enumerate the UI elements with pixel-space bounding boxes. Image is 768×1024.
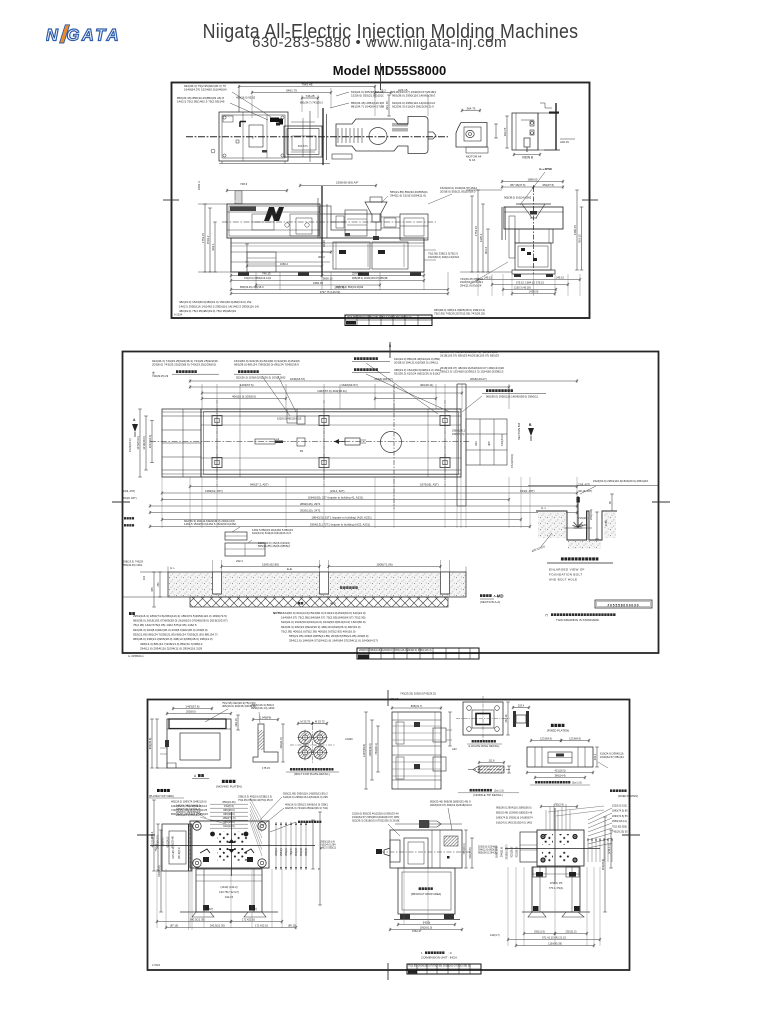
panel 3 border (148, 700, 630, 971)
plan: big circle (369, 128, 387, 145)
svg-text:805(31.7): 805(31.7) (411, 704, 423, 708)
svg-text:775.4, PS(1): 775.4, PS(1) (549, 886, 564, 890)
svg-text:75(2.95) 2618(103.07)75(2.95): 75(2.95) 2618(103.07)75(2.95) 2618(103.0… (408, 965, 471, 968)
svg-text:610(24.0): 610(24.0) (223, 824, 235, 828)
elevation centerline (222, 221, 436, 223)
moving platen extension lines (156, 869, 158, 928)
svg-text:1: 1 (421, 951, 423, 955)
dims above plan (239, 86, 375, 88)
elevation outline (227, 204, 320, 238)
A arrow left (132, 424, 138, 432)
anchor bolts (216, 400, 218, 486)
svg-text:175.15: 175.15 (262, 766, 270, 770)
end view base (512, 270, 555, 274)
dims above plan (190, 380, 577, 382)
svg-text:1793.6, PS: 1793.6, PS (550, 881, 563, 885)
svg-text:482(19.0) 1893(74.5)482(19.0): 482(19.0) 1893(74.5)482(19.0) (171, 800, 207, 804)
elevation base (231, 238, 424, 272)
injection barrel elevation (331, 214, 381, 230)
bottom table (407, 964, 481, 974)
svg-text:1463(57.6): 1463(57.6) (186, 704, 200, 708)
svg-text:203(8.0): 203(8.0) (186, 710, 196, 714)
base doors (333, 242, 370, 269)
svg-text:922(36.3): 922(36.3) (516, 846, 519, 857)
fixed platen top view (527, 747, 593, 767)
Niigata logo (46, 24, 126, 46)
plan: dark blob (270, 118, 279, 123)
plan: nozzle (428, 131, 433, 133)
projection lines down (161, 477, 163, 528)
svg-text:(89.15): (89.15) (288, 924, 296, 928)
right dim stack (275, 822, 277, 870)
extra plan internals (216, 409, 218, 477)
svg-text:482(19.0): 482(19.0) (152, 836, 155, 847)
model line (0, 63, 768, 78)
title table (345, 315, 432, 326)
cabinet (398, 868, 455, 914)
middle view extras (403, 868, 405, 924)
view B (512, 113, 538, 150)
svg-text:850(33.46) 1524(60.0)850(33.46: 850(33.46) 1524(60.0)850(33.46 (496, 812, 533, 815)
circle (381, 432, 402, 453)
small box right of clamp (320, 206, 331, 214)
platform step (247, 252, 276, 272)
svg-text:1462.5 555(21: 1462.5 555(21 (320, 847, 337, 850)
svg-text:366(14.4): 366(14.4) (554, 773, 565, 777)
middle top view banding (392, 725, 441, 727)
svg-text:610(24.0) 1462.5610(24.0) 1462: 610(24.0) 1462.5610(24.0) 1462 (496, 822, 533, 825)
svg-text:671.41.15 642.21.15: 671.41.15 642.21.15 (542, 935, 566, 939)
svg-text:421(16.5): 421(16.5) (554, 768, 565, 772)
fixed platen view (537, 830, 584, 866)
svg-text:2618(103.07): 2618(103.07) (506, 844, 509, 859)
svg-text:152(6.0): 152(6.0) (162, 837, 165, 846)
crosshair (231, 812, 233, 876)
svg-text:(214.17): (214.17) (607, 844, 611, 854)
plan: heavy mold line (322, 108, 324, 165)
svg-text:(2at 1.6): (2at 1.6) (494, 789, 504, 793)
fixed platen label (551, 724, 554, 727)
plan view: mid section (284, 126, 322, 157)
svg-text:293.15: 293.15 (234, 718, 238, 727)
motor view (456, 123, 487, 148)
svg-text:1.045(F6): 1.045(F6) (260, 715, 272, 719)
svg-text:1000(39.3): 1000(39.3) (368, 743, 372, 756)
middle top view (392, 712, 441, 789)
left dims (204, 204, 206, 272)
plan double frame (204, 412, 459, 475)
svg-text:610(24.0) 2950(116.14)610(24.0: 610(24.0) 2950(116.14)610(24.0) 295 (283, 795, 328, 799)
notes block 1 (129, 612, 132, 615)
svg-text:203.4: 203.4 (518, 703, 525, 707)
svg-text:75(2.9: 75(2.9 (290, 848, 293, 856)
plan: heater hatch (392, 123, 394, 127)
svg-text:293(11.5): 293(11.5) (279, 737, 283, 748)
projection lines up (201, 384, 203, 409)
nozzle symbol (334, 441, 345, 443)
svg-text:133.75(7.32 GT): 133.75(7.32 GT) (219, 890, 239, 894)
svg-text:743(29.25) 55: 743(29.25) 55 (612, 831, 628, 834)
B arrow right (528, 428, 534, 436)
plan left block detail (222, 115, 285, 158)
left vdims (153, 800, 155, 871)
plan: left small block (332, 154, 352, 159)
fixed platen extension lines (507, 867, 509, 946)
svg-text:965(38.0): 965(38.0) (223, 808, 235, 812)
plan view: inner mold rect (249, 125, 263, 147)
svg-text:122(4.7): 122(4.7) (490, 933, 500, 937)
spool (513, 711, 516, 727)
svg-text:[FIXED PLATEN]: [FIXED PLATEN] (547, 729, 569, 733)
bolt (577, 496, 579, 528)
left end block (162, 409, 201, 477)
svg-text:261.16: 261.16 (504, 714, 508, 722)
svg-text:1562(61.5): 1562(61.5) (420, 925, 433, 929)
feet (238, 273, 249, 277)
pit detail (536, 511, 617, 540)
right dim fan (587, 838, 589, 862)
svg-text:203(7): 203(7) (250, 908, 257, 911)
svg-text:542(9): 542(9) (423, 920, 431, 924)
flange view (463, 702, 503, 735)
end view mid section (515, 229, 553, 243)
extra dim rows top details (167, 713, 231, 715)
svg-text:740(29.1): 740(29.1) (462, 843, 466, 854)
svg-text:75(2.95) 850(33.46)75(2.95) 8: 75(2.95) 850(33.46)75(2.95) 8 (238, 798, 273, 802)
panel 1 border (172, 83, 590, 319)
svg-text:P: P (318, 867, 320, 871)
support (532, 867, 580, 912)
svg-text:542.5(21.35): 542.5(21.35) (210, 924, 225, 928)
svg-text:152(6.0) 152(: 152(6.0) 152( (612, 805, 627, 808)
A view (167, 719, 231, 768)
svg-text:2954(116.3) 881(34.7: 2954(116.3) 881(34.7 (176, 813, 201, 817)
svg-text:123.8(4.9): 123.8(4.9) (540, 736, 552, 740)
svg-text:1893(74.5): 1893(74.5) (223, 816, 236, 820)
svg-text:965(38.0): 965(38.0) (223, 812, 235, 816)
svg-text:542.5(21.35): 542.5(21.35) (190, 918, 205, 922)
svg-text:1640(64.57) 881(34.: 1640(64.57) 881(34. (600, 755, 625, 759)
svg-text:850(33.46): 850(33.46) (223, 800, 236, 804)
plan centerline (150, 441, 470, 443)
svg-text:[NOZZLE TIP DETAIL]: [NOZZLE TIP DETAIL] (474, 793, 503, 797)
bottom dims (231, 275, 322, 277)
ticks (389, 342, 391, 358)
middle side view (390, 830, 462, 868)
tick (380, 63, 382, 90)
plan: screw couplings (337, 128, 339, 143)
foundation plan outer (201, 409, 461, 477)
N logo (264, 207, 284, 221)
svg-text:A: A (194, 774, 197, 778)
svg-text:294(11.6): 294(11.6) (501, 847, 504, 858)
svg-text:743(29.25) 203(8.0)743(29.25: 743(29.25) 203(8.0)743(29.25 (400, 692, 436, 696)
svg-text:203.15: 203.15 (390, 697, 399, 701)
svg-text:850(33.46): 850(33.46) (172, 836, 175, 848)
svg-text:1893(74.5) 85: 1893(74.5) 85 (612, 810, 628, 813)
plan centerline (186, 136, 448, 138)
mold vertical lines (321, 186, 323, 276)
svg-text:2618(103.07) 482(19.0)2618(103: 2618(103.07) 482(19.0)2618(103.0 (430, 803, 472, 807)
svg-text:123.8(4.9): 123.8(4.9) (569, 736, 581, 740)
svg-text:850(33: 850(33 (300, 848, 303, 856)
bottom table (357, 648, 479, 659)
section line B (393, 384, 395, 509)
svg-text:(1440) (144.2): (1440) (144.2) (220, 885, 237, 889)
upper dim fan (545, 810, 547, 830)
svg-text:500(19.6): 500(19.6) (468, 847, 472, 858)
end view cabinet (515, 243, 551, 270)
svg-text:A23: A23 (452, 747, 457, 751)
svg-text:[BOLT FOR PLATE DETAIL]: [BOLT FOR PLATE DETAIL] (294, 772, 329, 776)
svg-text:111.8: 111.8 (489, 759, 495, 762)
svg-text:922(36.3) 743(29.25)922(36.3): 922(36.3) 743(29.25)922(36.3) 743( (285, 806, 328, 810)
bracket detail (253, 724, 278, 762)
svg-text:850(33: 850(33 (295, 848, 298, 856)
svg-text:2 DIMENSION UNIT : INCH: 2 DIMENSION UNIT : INCH (421, 956, 457, 960)
svg-text:(87.15): (87.15) (170, 924, 178, 928)
svg-text:294(11: 294(11 (275, 848, 278, 856)
header title (43, 21, 738, 44)
svg-text:(90.4)(3.1): (90.4)(3.1) (178, 847, 181, 859)
ticks (387, 690, 389, 706)
elevation bottom extension lines (230, 272, 232, 290)
right slot (456, 384, 458, 506)
svg-text:1893(74.5) 2950(116.14)1893(74: 1893(74.5) 2950(116.14)1893(74 (496, 817, 533, 820)
svg-text:782(2.9): 782(2.9) (554, 802, 564, 806)
svg-text:903(35.6): 903(35.6) (157, 865, 161, 876)
svg-text:1640(64.57): 1640(64.57) (157, 835, 160, 849)
svg-text:171.422.16: 171.422.16 (242, 918, 256, 922)
end view (504, 207, 563, 229)
svg-text:75(2.95) 555(: 75(2.95) 555( (612, 825, 627, 828)
svg-text:(2at 1.6): (2at 1.6) (572, 781, 582, 785)
svg-text:M 33.75: M 33.75 (300, 719, 310, 723)
cabinet extra lines (231, 245, 424, 247)
svg-text:965(38: 965(38 (305, 848, 308, 856)
bolt pattern (299, 731, 312, 744)
leader fans moving platen (250, 798, 262, 820)
header subtitle (0, 34, 759, 51)
panel 2 border (123, 352, 659, 654)
hopper (365, 202, 387, 222)
svg-text:[FIXED PLATEN]: [FIXED PLATEN] (618, 794, 638, 798)
svg-text:171.422.16: 171.422.16 (255, 924, 269, 928)
elevation small details (252, 214, 274, 230)
svg-text:903(35.6): 903(35.6) (601, 859, 605, 870)
svg-text:903(35.6): 903(35.6) (148, 738, 152, 750)
svg-text:4 7024: 4 7024 (152, 963, 160, 967)
svg-text:[PLATEN TOP VIEW]: [PLATEN TOP VIEW] (149, 794, 174, 798)
svg-text:205(7): 205(7) (206, 908, 213, 911)
svg-text:292(11.5): 292(11.5) (566, 929, 577, 933)
svg-text:[PRODUCT DROP AREA]: [PRODUCT DROP AREA] (411, 892, 441, 896)
plan mid detail (291, 121, 315, 123)
elevation extra (229, 206, 319, 236)
fixed platen support brackets (533, 867, 546, 877)
dims below plan (190, 486, 577, 488)
end view centerline (533, 187, 535, 274)
handles (203, 857, 209, 862)
svg-text:: 1/: : 1/ (448, 951, 452, 955)
svg-text:965(38.0) 2954(116.3)965(38.0): 965(38.0) 2954(116.3)965(38.0) (496, 807, 532, 810)
svg-text:292(11.5): 292(11.5) (534, 929, 545, 933)
moving platen labels (222, 780, 225, 783)
svg-text:1893(74.5) 55: 1893(74.5) 55 (612, 815, 628, 818)
svg-text:294(11: 294(11 (285, 848, 288, 856)
svg-text:2954(1: 2954(1 (280, 848, 283, 856)
nozzle tip left (384, 848, 390, 856)
nozzle detail (479, 766, 504, 773)
ladder (235, 191, 242, 204)
svg-text:152(6.0): 152(6.0) (224, 804, 234, 808)
platen side view (162, 824, 192, 871)
strip extension (212, 560, 214, 572)
plan extension lines (238, 90, 240, 112)
end view extra dims (471, 196, 473, 272)
svg-text:M 33.75: M 33.75 (315, 719, 325, 723)
svg-text:610(24.0): 610(24.0) (167, 836, 170, 847)
svg-text:1287(50.6): 1287(50.6) (362, 744, 366, 757)
svg-text:342.15: 342.15 (225, 895, 234, 899)
svg-text:2950(116.14) 1462: 2950(116.14) 1462 (251, 706, 275, 710)
right dim table (466, 419, 507, 465)
end view hopper funnel (516, 203, 551, 205)
moving platen view (190, 821, 269, 868)
svg-text:922(36.3) 2618(103.07)922(36.3: 922(36.3) 2618(103.07)922(36.3) 2618( (352, 818, 399, 822)
svg-text:740(29.1): 740(29.1) (374, 743, 378, 755)
plan base line (219, 163, 330, 165)
support below (196, 869, 262, 912)
end view left rail (501, 207, 503, 240)
svg-text:2950(116.14): 2950(116.14) (612, 820, 627, 823)
long vdim between views (319, 812, 321, 905)
svg-text:965(38.0) 294(11: 965(38.0) 294(11 (478, 852, 498, 855)
plan: injection unit body (336, 117, 428, 154)
plan view: clamp base (219, 112, 288, 161)
right leaders (588, 808, 612, 820)
svg-text:203.1: 203.1 (593, 753, 597, 760)
svg-text:[MOVING PLATEN]: [MOVING PLATEN] (216, 785, 241, 789)
svg-text:[LOCATE RING DETAIL]: [LOCATE RING DETAIL] (469, 744, 500, 748)
injection screw detail above (395, 823, 462, 825)
svg-text:922(36.3): 922(36.3) (511, 846, 514, 857)
svg-text:4-M20: 4-M20 (345, 737, 353, 741)
